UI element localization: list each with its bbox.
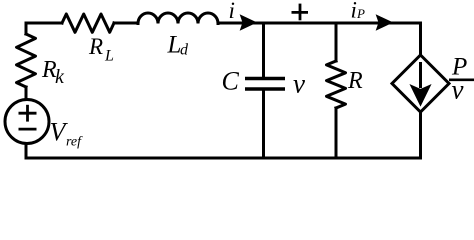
svg-text:C: C (222, 67, 240, 96)
resistor R (327, 61, 346, 108)
capacitor C plates (245, 79, 285, 90)
svg-text:i: i (229, 0, 235, 23)
voltage source plus sign (19, 105, 37, 122)
svg-text:R: R (88, 34, 103, 59)
wire source to bottom (25, 144, 28, 159)
svg-text:R: R (347, 68, 363, 94)
svg-text:P: P (356, 6, 365, 21)
wire left vertical upper (25, 23, 28, 34)
resistor R_k (17, 34, 36, 87)
svg-text:v: v (293, 69, 305, 99)
svg-text:i: i (351, 0, 357, 23)
wire top-left horizontal (26, 22, 62, 25)
dependent source diamond (392, 55, 449, 112)
wire right branch lower (419, 112, 422, 158)
resistor R_L (62, 14, 114, 32)
wire R branch upper (335, 23, 338, 61)
wire capacitor branch lower (262, 91, 265, 158)
svg-text:v: v (452, 75, 464, 105)
svg-text:d: d (180, 42, 189, 59)
dependent source arrow (411, 62, 431, 106)
current arrow i (241, 15, 257, 30)
svg-text:ref: ref (66, 135, 83, 150)
wire capacitor branch upper (262, 23, 265, 77)
svg-text:k: k (55, 66, 65, 88)
wire R branch lower (335, 108, 338, 158)
wire bottom horizontal (26, 157, 421, 160)
wire right branch upper (419, 23, 422, 55)
svg-text:L: L (104, 48, 114, 65)
wire top right of inductor to top-right corner (218, 22, 421, 25)
inductor L_d (138, 13, 218, 24)
voltage source minus sign (19, 128, 37, 131)
node plus sign (top) (292, 4, 309, 21)
voltage source V_ref circle (5, 100, 49, 144)
fraction bar of P/v (449, 79, 474, 82)
wire between R_L and L_d (114, 22, 138, 25)
current arrow i_P (377, 15, 393, 30)
wire R_k to source (25, 87, 28, 100)
